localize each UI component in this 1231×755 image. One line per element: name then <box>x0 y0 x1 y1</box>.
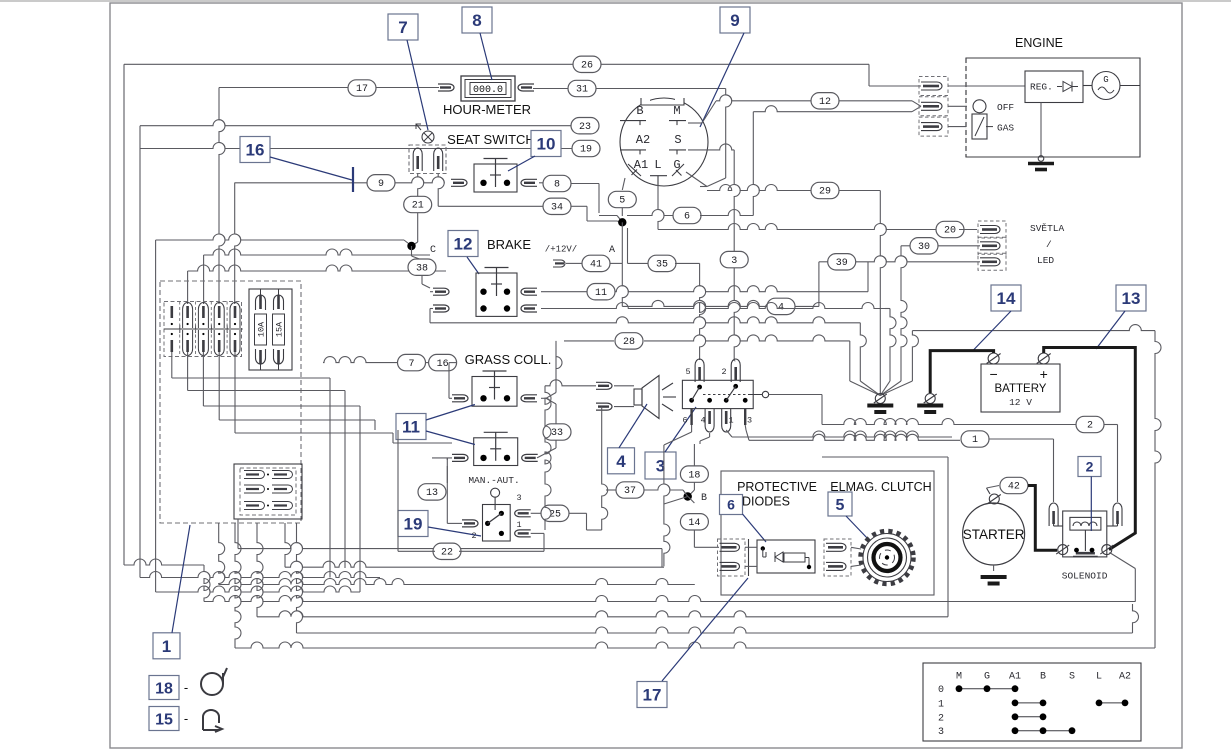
svg-text:6: 6 <box>727 497 735 513</box>
svg-text:12: 12 <box>454 235 473 254</box>
svg-text:000.0: 000.0 <box>473 85 503 96</box>
svg-text:3: 3 <box>731 256 737 267</box>
svg-text:10A: 10A <box>257 321 267 337</box>
svg-text:G: G <box>673 158 680 172</box>
svg-text:19: 19 <box>404 515 423 534</box>
svg-text:8: 8 <box>472 11 481 30</box>
svg-text:15A: 15A <box>275 321 285 337</box>
svg-text:14: 14 <box>688 518 700 529</box>
svg-text:+: + <box>1040 366 1048 382</box>
svg-text:/: / <box>1046 239 1052 250</box>
svg-text:13: 13 <box>1122 289 1141 308</box>
svg-text:20: 20 <box>944 226 956 237</box>
svg-text:C: C <box>430 245 436 256</box>
svg-text:M: M <box>956 672 962 683</box>
svg-text:11: 11 <box>595 288 607 299</box>
svg-text:33: 33 <box>551 428 563 439</box>
svg-text:5: 5 <box>619 196 625 207</box>
svg-text:2: 2 <box>721 367 726 377</box>
svg-text:17: 17 <box>356 84 368 95</box>
svg-text:A1: A1 <box>1009 672 1021 683</box>
svg-text:−: − <box>990 366 998 382</box>
svg-text:42: 42 <box>1008 482 1020 493</box>
svg-text:2: 2 <box>471 531 476 541</box>
svg-text:28: 28 <box>623 337 635 348</box>
svg-text:18: 18 <box>155 680 173 697</box>
svg-text:-: - <box>184 711 188 726</box>
svg-text:6: 6 <box>684 212 690 223</box>
svg-text:13: 13 <box>426 488 438 499</box>
svg-text:37: 37 <box>624 486 636 497</box>
svg-text:14: 14 <box>997 289 1016 308</box>
svg-text:M: M <box>673 104 680 118</box>
svg-text:1: 1 <box>162 637 171 656</box>
svg-text:41: 41 <box>590 260 602 271</box>
svg-text:S: S <box>1069 672 1075 683</box>
svg-text:A2: A2 <box>636 133 650 147</box>
svg-text:B: B <box>1040 672 1046 683</box>
svg-text:A1: A1 <box>634 158 648 172</box>
svg-text:29: 29 <box>819 187 831 198</box>
svg-text:GAS: GAS <box>997 123 1014 134</box>
svg-text:12 V: 12 V <box>1009 397 1032 408</box>
svg-text:1: 1 <box>728 416 733 426</box>
svg-text:31: 31 <box>576 85 588 96</box>
svg-text:2: 2 <box>938 713 944 724</box>
svg-text:B: B <box>636 104 643 118</box>
svg-text:STARTER: STARTER <box>963 527 1025 542</box>
svg-text:A: A <box>609 245 615 256</box>
svg-text:8: 8 <box>554 180 560 191</box>
svg-text:4: 4 <box>700 416 705 426</box>
svg-text:HOUR-METER: HOUR-METER <box>443 102 531 117</box>
svg-text:26: 26 <box>581 61 593 72</box>
svg-text:1: 1 <box>938 699 944 710</box>
svg-text:2: 2 <box>1087 421 1093 432</box>
svg-text:LED: LED <box>1037 255 1054 266</box>
svg-text:34: 34 <box>551 203 563 214</box>
svg-text:REG.: REG. <box>1030 82 1053 93</box>
svg-text:22: 22 <box>441 548 453 559</box>
svg-text:16: 16 <box>246 141 265 160</box>
svg-text:21: 21 <box>412 201 424 212</box>
svg-text:PROTECTIVE: PROTECTIVE <box>737 480 817 494</box>
svg-text:SVĚTLA: SVĚTLA <box>1030 223 1065 234</box>
svg-text:11: 11 <box>402 418 420 437</box>
svg-text:35: 35 <box>656 260 668 271</box>
svg-text:18: 18 <box>688 470 700 481</box>
svg-text:3: 3 <box>938 727 944 738</box>
svg-text:1: 1 <box>972 435 978 446</box>
svg-text:39: 39 <box>836 258 848 269</box>
svg-text:0: 0 <box>938 685 944 696</box>
svg-text:OFF: OFF <box>997 102 1014 113</box>
svg-text:BRAKE: BRAKE <box>487 237 531 252</box>
svg-text:3: 3 <box>516 493 521 503</box>
svg-text:S: S <box>674 133 681 147</box>
svg-text:4: 4 <box>616 452 626 471</box>
svg-text:SOLENOID: SOLENOID <box>1062 571 1108 582</box>
svg-text:5: 5 <box>685 367 690 377</box>
svg-text:GRASS COLL.: GRASS COLL. <box>465 352 552 367</box>
svg-text:7: 7 <box>398 18 407 37</box>
svg-text:5: 5 <box>836 497 845 514</box>
svg-text:19: 19 <box>580 145 592 156</box>
svg-text:2: 2 <box>1086 459 1094 475</box>
svg-text:1: 1 <box>516 520 521 530</box>
svg-text:G: G <box>1103 75 1108 85</box>
svg-text:L: L <box>654 158 661 172</box>
svg-text:ENGINE: ENGINE <box>1015 36 1063 50</box>
svg-text:-: - <box>184 680 188 695</box>
svg-text:G: G <box>984 672 990 683</box>
svg-text:17: 17 <box>643 686 662 705</box>
svg-text:38: 38 <box>416 263 428 274</box>
svg-text:B: B <box>701 493 707 504</box>
svg-text:BATTERY: BATTERY <box>995 383 1047 395</box>
svg-text:A2: A2 <box>1119 672 1131 683</box>
svg-text:6: 6 <box>682 416 687 426</box>
svg-text:15: 15 <box>155 711 173 728</box>
svg-text:9: 9 <box>730 11 739 30</box>
svg-text:10: 10 <box>537 135 556 154</box>
svg-text:DIODES: DIODES <box>742 495 790 509</box>
svg-text:MAN.-AUT.: MAN.-AUT. <box>468 475 519 486</box>
svg-text:12: 12 <box>819 97 831 108</box>
svg-text:3: 3 <box>747 416 752 426</box>
svg-text:L: L <box>1096 672 1102 683</box>
svg-text:/+12V/: /+12V/ <box>545 245 577 255</box>
svg-text:SEAT SWITCH: SEAT SWITCH <box>447 132 535 147</box>
svg-text:23: 23 <box>579 122 591 133</box>
svg-text:30: 30 <box>918 242 930 253</box>
svg-text:9: 9 <box>378 179 384 190</box>
svg-text:7: 7 <box>408 359 414 370</box>
svg-text:16: 16 <box>437 359 449 370</box>
